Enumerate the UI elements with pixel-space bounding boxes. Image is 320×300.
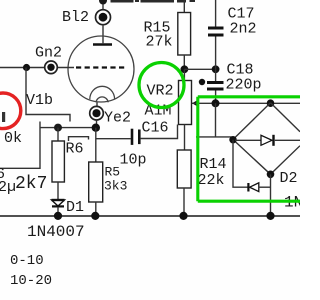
cathode of V1b: [90, 86, 115, 99]
wire left rail down from grid node: [26, 68, 70, 122]
svg-text:22k: 22k: [198, 172, 225, 189]
svg-text:C16: C16: [142, 120, 169, 137]
wire R14 to rail: [183, 188, 185, 216]
capacitor C18: [207, 81, 224, 84]
svg-text:V1b: V1b: [26, 92, 53, 109]
svg-text:10-20: 10-20: [10, 273, 52, 289]
cut text remnants top edge: [111, 0, 196, 3]
node R6 top: [54, 124, 62, 132]
node C17/C18: [212, 65, 220, 73]
anode plate of V1b: [93, 43, 112, 46]
svg-text:2n2: 2n2: [230, 21, 257, 38]
wire to C16: [96, 138, 131, 140]
wire R6 to D1: [57, 182, 59, 200]
grid lead wire: [58, 67, 75, 69]
diode D1: [52, 200, 65, 206]
resistor R15: [178, 13, 191, 56]
node bridge top: [267, 99, 275, 107]
resistor R6: [52, 141, 64, 182]
diode D2 center: [235, 139, 261, 141]
node stray dot left of C18: [199, 79, 205, 85]
wire VR2 bottom to R14: [184, 125, 186, 151]
wire C16 to VR2 bottom: [141, 125, 178, 139]
wire R15 bottom: [183, 55, 185, 69]
wire C17 bottom: [215, 37, 217, 70]
svg-text:2k7: 2k7: [15, 174, 47, 194]
resistor R5: [89, 162, 103, 202]
connector Ye2: [96, 103, 98, 107]
svg-text:10p: 10p: [120, 152, 147, 169]
wire junction row: [184, 68, 215, 70]
capacitor C17: [208, 27, 224, 30]
svg-text:Bl2: Bl2: [62, 9, 89, 26]
svg-text:27k: 27k: [146, 34, 173, 51]
resistor R14: [177, 150, 191, 188]
node cathode junction: [96, 120, 98, 128]
wire R6 top lead: [57, 128, 59, 141]
svg-text:Gn2: Gn2: [35, 45, 62, 62]
node bridge left: [229, 136, 236, 143]
heater of V1b: [96, 97, 108, 102]
wire cathode row stub: [0, 122, 40, 169]
cut glyph inside red circle: [2, 112, 5, 122]
tube V1b envelope: [68, 36, 134, 102]
wire bridge left corner down: [233, 140, 248, 188]
node rail bridge: [266, 212, 274, 220]
potentiometer VR2: [179, 81, 192, 125]
wire ground rail: [0, 215, 300, 217]
connector Bl2: [96, 10, 111, 25]
connector Gn2: [45, 61, 58, 74]
wire R5 to rail: [95, 202, 97, 216]
wire wiper bus: [192, 102, 300, 104]
capacitor C16: [131, 129, 134, 145]
wire R15 top: [183, 0, 185, 13]
wire bridge bottom to rail: [270, 174, 272, 216]
node R15/VR2: [181, 65, 189, 73]
svg-text:0k: 0k: [4, 130, 22, 147]
node rail R5: [91, 212, 99, 220]
annotation green box around D2: [198, 97, 300, 201]
node bridge bottom: [267, 171, 275, 179]
bridge D2 diamond edges: [233, 103, 271, 175]
svg-text:R6: R6: [66, 141, 84, 158]
wiper arrow VR2: [192, 100, 198, 107]
bracket over R6: [69, 137, 89, 141]
svg-text:D2: D2: [280, 170, 298, 187]
node rail D1: [54, 212, 62, 220]
svg-text:0-10: 0-10: [10, 253, 44, 269]
wire cathode row: [40, 127, 96, 129]
svg-text:3k3: 3k3: [104, 179, 127, 194]
svg-text:R14: R14: [200, 156, 227, 173]
svg-text:6: 6: [0, 166, 5, 183]
node rail R14: [179, 212, 187, 220]
node wiper/C18 junction: [212, 99, 220, 107]
wire C17 top: [215, 0, 217, 27]
grid of V1b (dashed): [76, 66, 127, 68]
wire C18 top: [215, 69, 217, 81]
svg-text:220p: 220p: [226, 77, 262, 94]
wire D1 to rail: [57, 207, 59, 216]
annotation red circle left: [0, 93, 21, 129]
svg-text:1N4007: 1N4007: [27, 223, 85, 241]
wire VR2 top: [183, 69, 185, 80]
wire top feed to Bl2: [102, 0, 104, 10]
svg-text:D1: D1: [66, 199, 84, 216]
svg-text:R5: R5: [105, 165, 121, 180]
wire grid to left edge: [0, 67, 45, 69]
node on grid wire: [23, 64, 30, 71]
wire Bl2 to anode: [102, 24, 104, 43]
wire C18 bottom: [215, 91, 217, 104]
annotation green circle around VR2: [139, 63, 184, 108]
node junction top of Bl2: [99, 0, 107, 5]
wire junction down to bridge left: [196, 103, 233, 139]
svg-text:Ye2: Ye2: [104, 110, 131, 127]
wire junction to R5: [95, 128, 97, 162]
diode of bridge lower left: [247, 183, 249, 192]
svg-text:VR2: VR2: [147, 83, 174, 100]
